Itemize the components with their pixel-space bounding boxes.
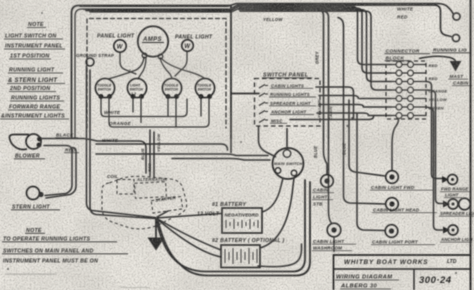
wire panel to running lights row [231,93,259,95]
engine area dashed outline [102,176,187,229]
connector block dashed box [386,61,426,119]
blower B1 [9,134,41,150]
toggle switch S4 [195,78,214,98]
cabin light STB lamp [321,175,334,188]
panel light right [182,40,194,52]
starter dashed box [151,196,182,213]
wire main switch top stub [286,128,288,150]
switch panel dashed box [255,79,321,127]
wire starter to junction [157,211,168,217]
stern light [27,187,43,200]
connector block terminal rows [391,62,426,119]
cabin light HEAD lamp [386,198,399,211]
toggle switch S1 [95,78,114,98]
instrument panel outline (rounded rect, double line) [72,6,232,139]
wire bundle v5 to head lamp [344,26,386,204]
battery 1 cell marks [226,219,258,229]
wire battery2 to main switch [260,178,294,248]
mast cabin arrow [419,56,456,62]
switch panel toggle running lights [259,93,268,97]
panel light wires [120,52,136,74]
ammeter U1 [138,26,168,59]
instrument panel inner dashed boundary [87,19,226,129]
wire trunk to block row1 [86,7,391,65]
wire washroom lamp stem [333,237,335,252]
wire trunk to block row3 [239,10,391,82]
switch panel toggle anchor light [259,111,268,115]
switch panel toggle misc [259,119,268,123]
heavy ground loop outer [156,180,305,272]
panel light left [114,40,126,52]
wire junction to battery1 [156,214,221,219]
fwd range light circle [448,175,458,185]
wire white top run to running lights [80,4,453,14]
toggle switch S3 [162,78,181,98]
wire trunk to block row4 [240,11,391,90]
battery 1 box [222,208,262,233]
switch panel toggle cabin lights [259,85,268,89]
ammeter terminal wires to switches [108,57,144,79]
wire fwd lamp up [392,120,399,171]
ground strap terminal [86,58,94,66]
cabin light washroom lamp [327,223,341,237]
anchor light circle [448,225,458,235]
spreader light circles [448,199,458,209]
title block frame [334,255,471,290]
wire junction to battery2 fan [156,218,221,250]
switch panel toggle spreader light [259,102,268,106]
arrow spreader [443,201,450,208]
wire switch panel to main switch top [259,126,277,157]
sheet border right edge [470,0,472,290]
wire white run under panel [96,144,228,150]
wire battery2 bottom loop [258,244,302,267]
switch bottom wiring runs [101,97,187,117]
engine feed wire red [153,132,155,178]
cabin light FWD lamp [386,171,399,184]
heavy ground loop inner [158,182,310,276]
main switch [273,148,304,179]
light switch S2 [127,78,146,98]
running light terminal top [453,13,460,20]
terminal row 5 [391,98,426,100]
alternator dashed box [135,182,167,199]
wire panel edge stub to switch feed [230,138,232,153]
blower black wire [41,139,146,174]
grey wire down from panel [324,140,328,174]
wire brown vertical [349,100,385,176]
arrow anchor [443,227,450,234]
cabin light PORT lamp [385,225,398,238]
terminal row 3 [391,81,426,83]
terminal row 7 [391,115,426,117]
coil dashed box [117,180,134,195]
battery 2 cell marks [225,248,257,264]
wire left pair v2 [322,11,329,138]
ground strap wire down to junction [87,66,156,218]
terminal row 2 [391,72,426,74]
ground arrow [155,218,157,238]
arrow fwd range [442,176,449,183]
terminal row 4 [391,89,426,91]
panel wire down to junction 2 [90,70,156,219]
note top-left heading [1,22,65,120]
wire battery1 to main switch [262,178,283,212]
wires right of switch panel [86,7,391,223]
wire panel to main switch [96,154,268,156]
running light terminal 2 [452,34,459,41]
wire yellow run to left pair v1 [317,10,324,140]
engine feed wire yellow [149,130,151,176]
stern light second wire [46,148,76,199]
wire red top run [84,5,451,36]
wire junction to battery2 low [156,218,221,257]
blower red wire to stern light [44,146,72,196]
terminal row 6 [391,106,426,108]
wire trunk to block row2 [90,8,391,73]
battery 2 box [221,245,260,268]
wires feeding right column lamps [349,82,444,231]
terminal row 1 [391,64,426,66]
switch panel row wires to connector [316,87,354,118]
wire right side feed down [426,82,443,179]
